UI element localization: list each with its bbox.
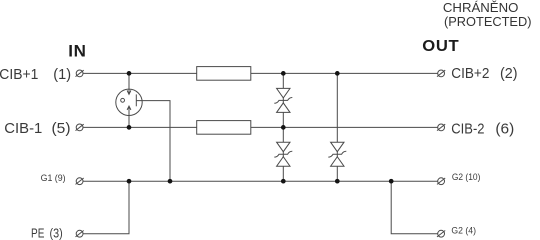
wire GDT electrode to G1 <box>136 101 170 182</box>
terminal CIB-1 pin 5 <box>76 124 84 131</box>
svg-text:PE: PE <box>31 226 45 240</box>
wire CIB+1 row left segment <box>83 72 197 74</box>
wire GDT bottom lead <box>128 106 130 127</box>
junction G1 / GDT electrode <box>168 179 173 184</box>
label PE pin 3 <box>31 226 63 240</box>
TVS diode V1 <box>274 88 292 112</box>
label CIB+1 pin 1 <box>0 66 71 83</box>
svg-text:G1 (9): G1 (9) <box>41 173 66 184</box>
svg-text:OUT: OUT <box>422 38 459 55</box>
wire CIB+1 row right segment <box>251 72 438 74</box>
junction CIB+1 / V3 <box>335 71 340 76</box>
TVS diode V3 <box>328 142 346 166</box>
wire G2 pin4 branch <box>391 181 437 234</box>
svg-text:(3): (3) <box>50 226 63 240</box>
resistor R2 <box>197 121 251 135</box>
label CIB+2 pin 2 <box>451 65 517 82</box>
svg-text:G2 (10): G2 (10) <box>452 172 481 183</box>
junction CIB-1 / V1-V2 <box>281 125 286 130</box>
svg-text:IN: IN <box>68 41 86 60</box>
wire PE horizontal <box>83 181 129 234</box>
wire CIB-1 row left segment <box>83 126 197 128</box>
svg-text:(6): (6) <box>495 121 514 138</box>
junction CIB-1 / GDT <box>127 125 132 130</box>
svg-text:CHRÁNĚNO: CHRÁNĚNO <box>443 0 519 15</box>
svg-text:(2): (2) <box>500 65 518 82</box>
resistor R1 <box>197 67 251 81</box>
terminal G2 pin 4 <box>437 230 445 237</box>
svg-text:CIB+1: CIB+1 <box>0 66 38 83</box>
terminal G1 pin 9 <box>76 178 84 185</box>
terminal CIB+2 pin 2 <box>437 70 445 77</box>
svg-text:(5): (5) <box>52 120 71 137</box>
wire CIB-1 row right segment <box>251 126 438 128</box>
junction G2 branch <box>389 179 394 184</box>
terminal CIB-2 pin 6 <box>437 124 445 131</box>
svg-text:CIB-2: CIB-2 <box>451 121 484 138</box>
wire TVS column 1 <box>282 73 284 181</box>
terminal PE pin 3 <box>76 230 84 237</box>
junction G1 / V3 <box>335 179 340 184</box>
label CIB-2 pin 6 <box>451 121 514 138</box>
svg-text:(1): (1) <box>53 66 71 83</box>
svg-text:CIB+2: CIB+2 <box>451 65 489 82</box>
wire G1-G2 row <box>83 180 438 182</box>
wire GDT top lead <box>128 73 130 94</box>
svg-text:(PROTECTED): (PROTECTED) <box>444 14 532 29</box>
junction CIB+1 / V1 <box>281 71 286 76</box>
junction G1 / PE <box>127 179 132 184</box>
terminal G2 pin 10 <box>437 178 445 185</box>
gas discharge tube F1 <box>116 89 142 115</box>
terminal CIB+1 pin 1 <box>76 70 84 77</box>
svg-text:G2 (4): G2 (4) <box>451 225 476 236</box>
svg-text:CIB-1: CIB-1 <box>4 120 42 137</box>
junction G1 / V2 <box>281 179 286 184</box>
wire TVS column 2 <box>336 73 338 181</box>
junction CIB+1 / GDT <box>127 71 132 76</box>
TVS diode V2 <box>274 142 292 166</box>
label CIB-1 pin 5 <box>4 120 70 137</box>
